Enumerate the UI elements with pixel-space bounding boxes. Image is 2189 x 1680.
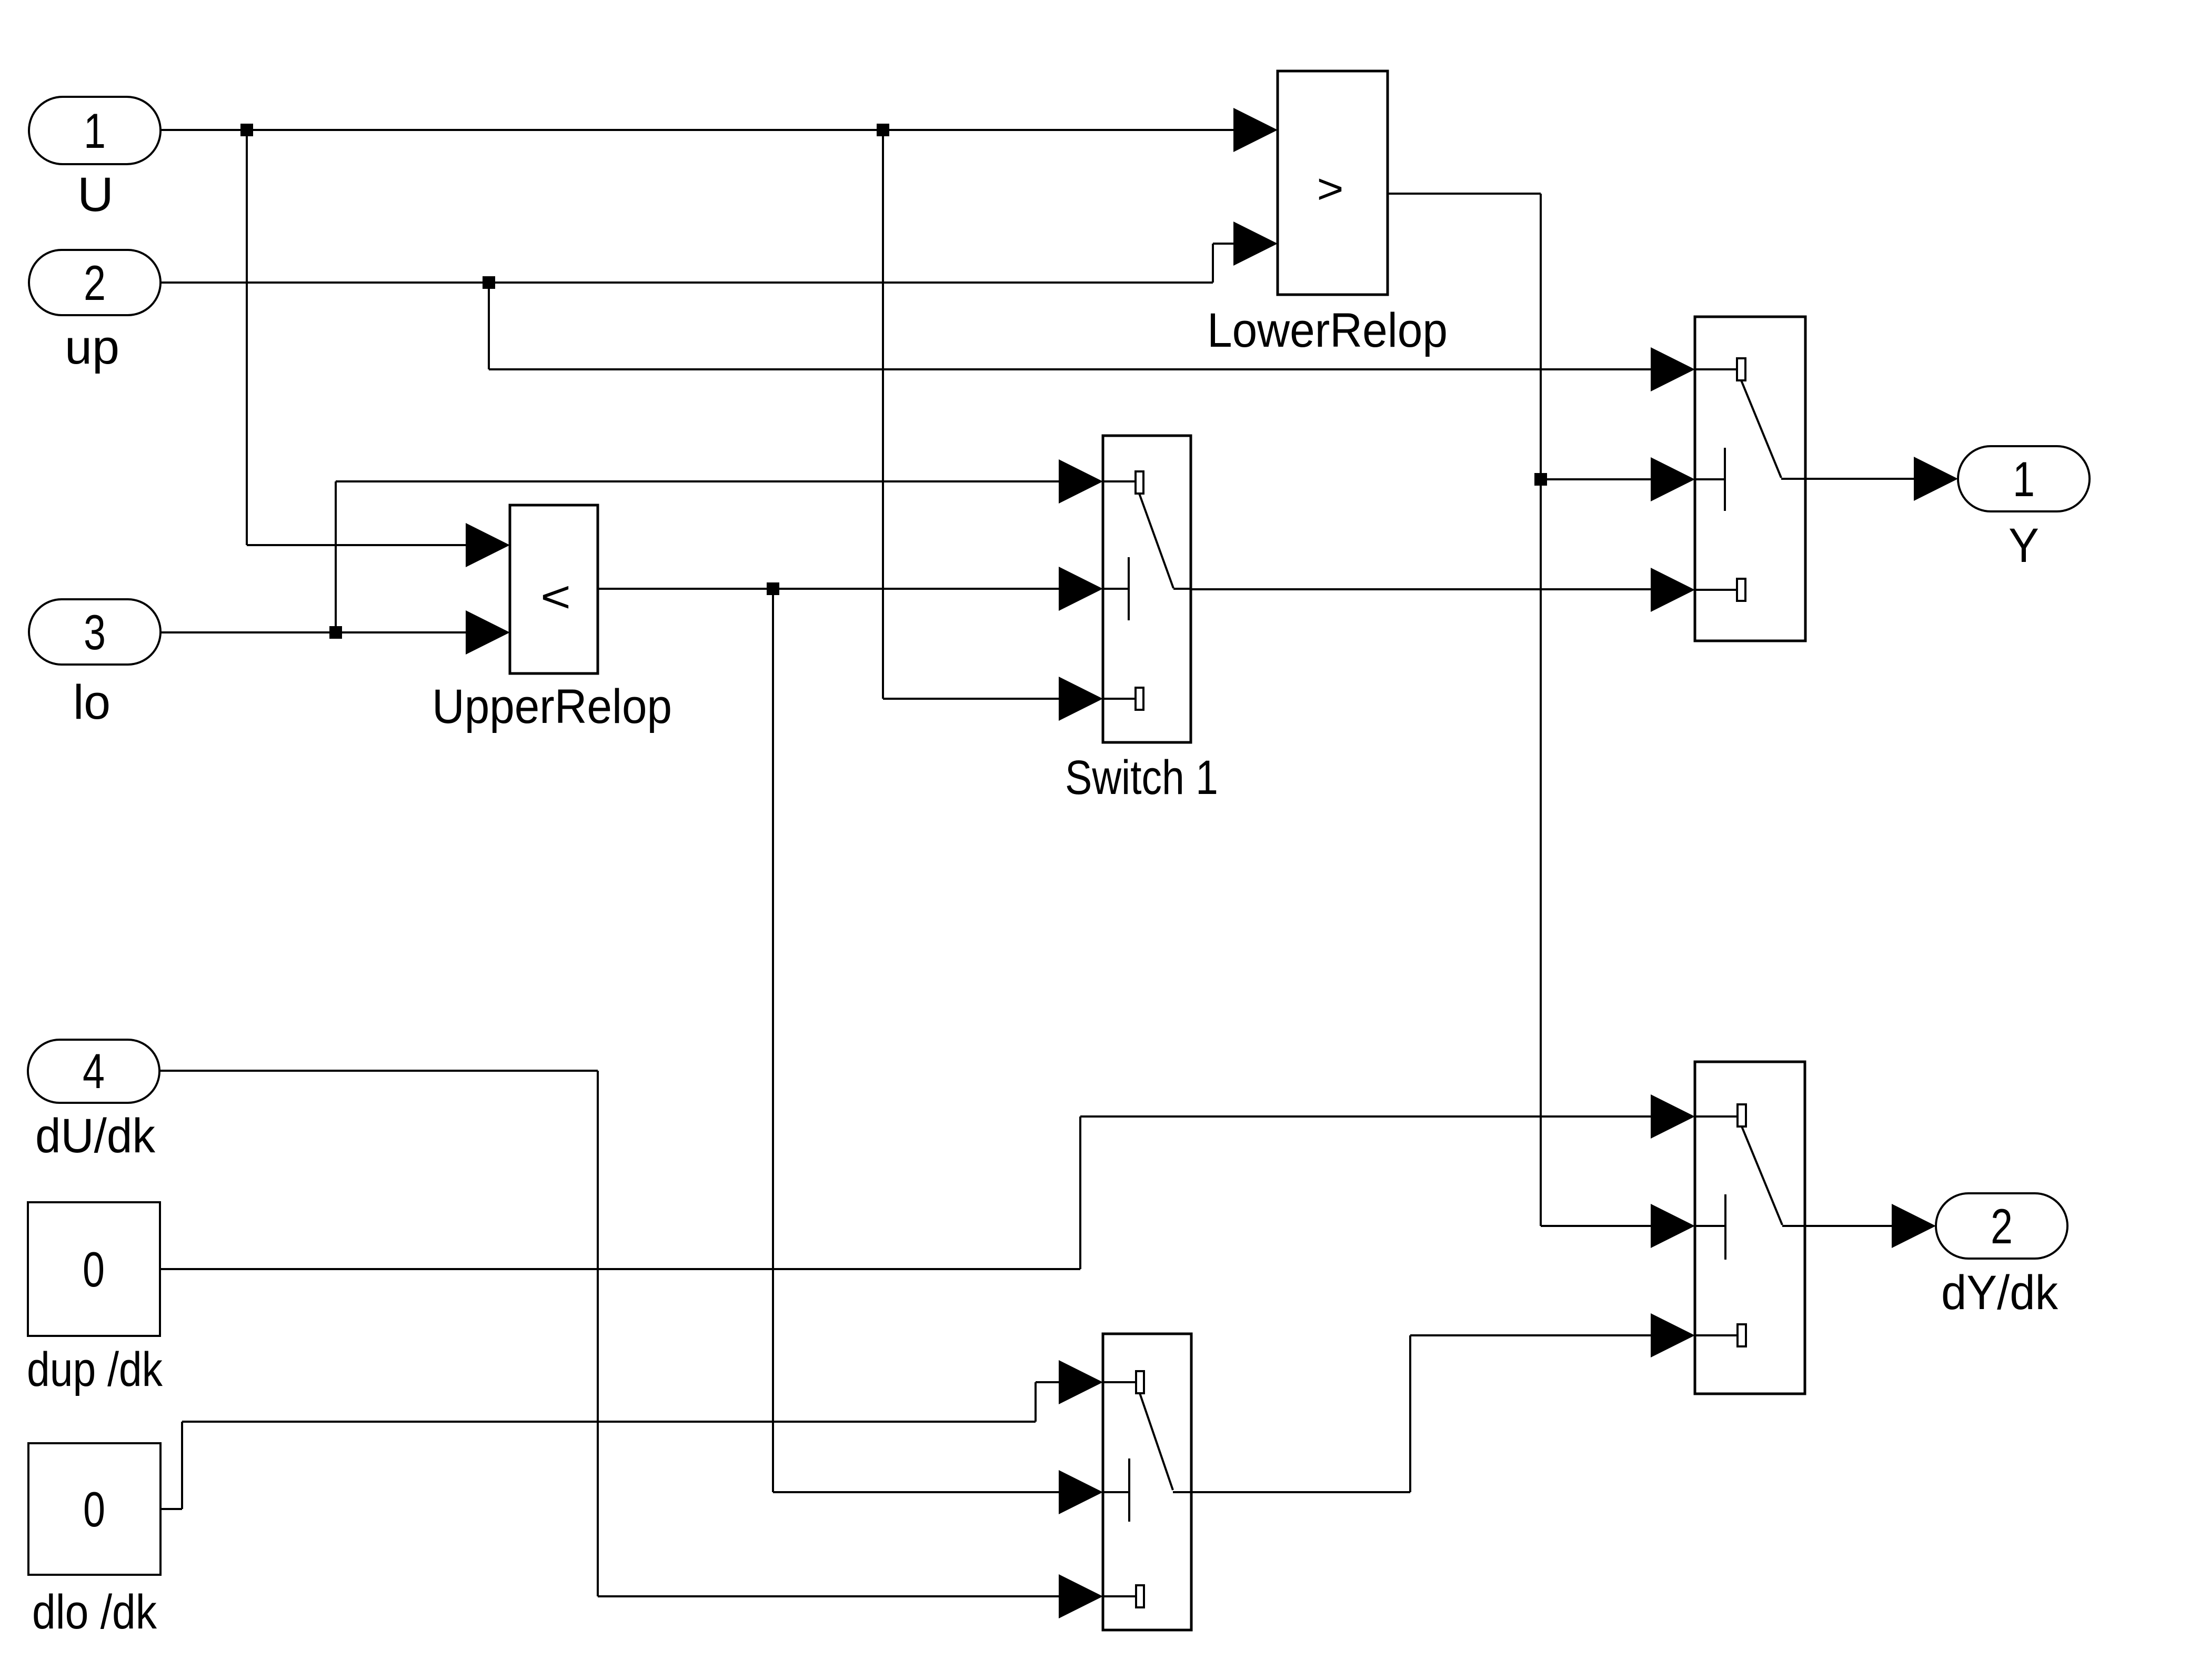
svg-text:2: 2 [1991, 1199, 2013, 1254]
arrow into LowerRelop in1 [1233, 108, 1278, 152]
arrow into Switch1 in1 [1059, 459, 1103, 504]
arrow into dY/dk switch in3 [1651, 1313, 1695, 1357]
svg-text:0: 0 [83, 1482, 105, 1537]
switch dY/dk (lower right) [1695, 1062, 1805, 1394]
label up [65, 320, 119, 374]
arrow into Switch1 in2 [1059, 567, 1103, 611]
svg-text:1: 1 [84, 103, 106, 158]
wire UpperRelop output [598, 588, 1060, 590]
switch Switch1 [1103, 436, 1191, 742]
inport 1 (U) [29, 97, 160, 164]
switch Y (upper right) [1695, 317, 1805, 641]
arrow into Switch2 in2 [1059, 1470, 1103, 1514]
wire LowerRelop output [1388, 194, 1541, 1226]
svg-text:2: 2 [84, 255, 106, 310]
inport 2 (up) [29, 250, 160, 315]
label UpperRelop [432, 680, 672, 733]
wire Switch2 output to dY switch in3 [1191, 1335, 1652, 1492]
label Y [2009, 519, 2039, 572]
label LowerRelop [1207, 304, 1448, 357]
wire control to dY/dk switch in2 [1541, 1225, 1652, 1227]
outport 2 (dY/dk) [1936, 1193, 2067, 1259]
arrow into Switch1 in3 [1059, 677, 1103, 721]
svg-text:up: up [65, 320, 119, 374]
wire Y switch output [1805, 478, 1915, 480]
junction U line A [240, 124, 253, 136]
label dup/dk [27, 1343, 163, 1396]
svg-text:dY/dk: dY/dk [1941, 1266, 2059, 1320]
wire UpperRelop branch to Switch2 in2 [773, 589, 1060, 1492]
wire dU/dk to Switch2 in3 [160, 1071, 1060, 1596]
arrow into UpperRelop in1 [466, 523, 510, 567]
relational operator LowerRelop (>) [1278, 71, 1388, 295]
inport 3 (lo) [29, 599, 160, 665]
arrow into Y switch in3 [1651, 568, 1695, 612]
arrow into outport dY/dk [1892, 1204, 1936, 1248]
inport 4 (dU/dk) [28, 1040, 159, 1103]
wire up branch to Y switch in1 [489, 283, 1652, 369]
junction U line B [877, 124, 889, 136]
svg-text:1: 1 [2013, 451, 2035, 507]
svg-text:dup /dk: dup /dk [27, 1343, 163, 1396]
wire lo branch to Switch1 in1 [336, 481, 1060, 632]
svg-text:>: > [1317, 165, 1344, 212]
wire U branch to UpperRelop [247, 130, 467, 545]
arrow into dY/dk switch in1 [1651, 1094, 1695, 1139]
relational operator UpperRelop (<) [510, 505, 598, 673]
arrow into dY/dk switch in2 [1651, 1204, 1695, 1248]
junction lo line [329, 626, 342, 639]
svg-text:lo: lo [73, 676, 111, 729]
svg-text:Y: Y [2009, 519, 2039, 572]
arrow into Y switch in2 [1651, 457, 1695, 501]
label dY/dk [1941, 1266, 2059, 1320]
svg-text:dlo /dk: dlo /dk [32, 1585, 157, 1639]
outport 1 (Y) [1958, 446, 2090, 511]
label dlo/dk [32, 1585, 157, 1639]
wire U branch to Switch1 in3 [883, 130, 1060, 699]
svg-text:UpperRelop: UpperRelop [432, 680, 672, 733]
wire U main [160, 129, 1234, 131]
svg-text:4: 4 [83, 1043, 105, 1099]
arrow into Y switch in1 [1651, 347, 1695, 391]
wire dY/dk switch output [1805, 1225, 1893, 1227]
arrow into LowerRelop in2 [1233, 222, 1278, 266]
svg-text:0: 0 [83, 1242, 105, 1297]
constant 0 (dlo/dk) [28, 1443, 160, 1575]
junction up line [483, 276, 495, 289]
svg-text:dU/dk: dU/dk [35, 1109, 156, 1163]
arrow into Switch2 in3 [1059, 1574, 1103, 1618]
wire up main [160, 244, 1234, 283]
label dU/dk [35, 1109, 156, 1163]
wire lo main [160, 631, 467, 633]
arrow into outport Y [1914, 457, 1958, 501]
svg-text:3: 3 [84, 605, 106, 660]
constant 0 (dup/dk) [28, 1202, 160, 1336]
svg-text:LowerRelop: LowerRelop [1207, 304, 1448, 357]
arrow into UpperRelop in2 [466, 610, 510, 655]
wire Switch1 output to Y switch in3 [1191, 588, 1652, 590]
svg-text:Switch 1: Switch 1 [1065, 751, 1218, 804]
switch Switch2 (lower middle) [1103, 1334, 1191, 1630]
junction UpperRelop output [767, 582, 779, 595]
label lo [73, 676, 111, 729]
svg-text:<: < [540, 572, 571, 621]
wire control to Y switch in2 [1541, 478, 1652, 480]
wire dup/dk to dY switch in1 [160, 1116, 1652, 1269]
junction LowerRelop control [1534, 473, 1547, 486]
svg-text:U: U [77, 168, 114, 222]
arrow into Switch2 in1 [1059, 1360, 1103, 1404]
label U [77, 168, 114, 222]
label Switch 1 [1065, 751, 1218, 804]
wire dlo/dk to Switch2 in1 [160, 1382, 1060, 1509]
